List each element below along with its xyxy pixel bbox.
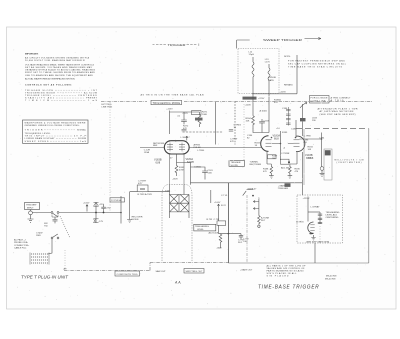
svg-text:NOTE:: NOTE:: [284, 56, 291, 58]
switch lever bottom: [243, 190, 254, 196]
conditions note box: [23, 120, 89, 143]
wire: top link: [170, 111, 200, 113]
svg-text:10K: 10K: [246, 121, 250, 123]
svg-text:WAVEFORMS & VOLTAGE READINGS: WAVEFORMS & VOLTAGE READINGS WERE: [25, 121, 87, 124]
svg-text:6U8: 6U8: [274, 138, 279, 141]
switch SW751: [51, 237, 53, 239]
svg-text:TRIGGERING LEVEL: TRIGGERING LEVEL: [25, 133, 52, 135]
connector J750: [29, 211, 33, 215]
diode box CR185: [268, 155, 277, 159]
label composite trig: [115, 271, 140, 276]
svg-text:TRIGGERING: TRIGGERING: [195, 226, 209, 228]
svg-text:LOWER BEAM DISPLAY: LOWER BEAM DISPLAY: [25, 137, 56, 140]
svg-text:SAW OUT: SAW OUT: [156, 270, 167, 273]
wire: after switch: [59, 212, 96, 214]
tube V193B envelope arc: [296, 136, 305, 151]
millivolts switch detail: [324, 149, 332, 180]
svg-text:+100V: +100V: [83, 203, 90, 205]
svg-text:CONN LINE: CONN LINE: [311, 101, 327, 103]
text: controls list: [25, 90, 98, 102]
svg-text:47K: 47K: [274, 102, 278, 104]
svg-text:TRIGGERING: TRIGGERING: [326, 212, 340, 214]
svg-text:A.TUNE: A.TUNE: [261, 216, 270, 219]
capacitor C752: [101, 204, 105, 212]
svg-text:FIRST SET TO THESE. SHOWN FROM: FIRST SET TO THESE. SHOWN FROM TOLERANCE…: [25, 71, 95, 74]
svg-text:SWEEP SPEED: SWEEP SPEED: [25, 141, 49, 143]
label swp out boxed: [184, 269, 204, 274]
sel capacitor dark: [325, 150, 331, 155]
note box right: [310, 96, 330, 104]
svg-text:RECTIFIER: RECTIFIER: [250, 164, 262, 166]
svg-text:USE TOLERANCES ARE SHOWN. THE: USE TOLERANCES ARE SHOWN. THE EQUIPMENT …: [25, 74, 93, 77]
svg-text:MX-40 KM: MX-40 KM: [325, 278, 336, 280]
svg-text:C182A: C182A: [194, 165, 201, 168]
svg-text:VOLTAGE READINGS MEAS. WERE TA: VOLTAGE READINGS MEAS. WERE TAKEN WITH C…: [25, 63, 95, 66]
svg-text:COMPOSITE TRIG: COMPOSITE TRIG: [117, 274, 138, 276]
svg-text:A TRIG: A TRIG: [331, 99, 344, 102]
attenuator column: [95, 203, 97, 223]
capacitor ladder in box: [318, 212, 322, 224]
svg-text:12µH: 12µH: [249, 54, 255, 56]
svg-text:(SEE SWP GATE GEN SWP): (SEE SWP GATE GEN SWP): [320, 113, 356, 116]
svg-text:+100V: +100V: [214, 202, 221, 204]
switch wiper circle: [320, 167, 324, 171]
junction box cathode: [281, 159, 290, 164]
svg-text:OSC: OSC: [243, 241, 248, 243]
svg-text:+225V: +225V: [280, 92, 287, 94]
cathode dark arc: [310, 232, 314, 235]
dot leaders for controls list: [51, 90, 86, 100]
resistor R751: [258, 216, 261, 225]
resistor R184: [252, 116, 255, 129]
svg-text:CONTROLS SET AS FOLLOWS:: CONTROLS SET AS FOLLOWS:: [25, 83, 72, 86]
ground symbol right: [320, 170, 325, 176]
ground input: [28, 215, 34, 223]
svg-text:FOR FASTEST PERMISSIBLE SWP AN: FOR FASTEST PERMISSIBLE SWP AND: [288, 60, 345, 63]
resistor R271: [198, 112, 201, 127]
svg-text:TYPE T PLUG-IN UNIT: TYPE T PLUG-IN UNIT: [21, 274, 68, 279]
arrow into chain 1: [253, 201, 259, 203]
dashed stub below ladder: [319, 226, 321, 242]
svg-text:AC FAST -J: AC FAST -J: [14, 239, 26, 242]
capacitor C272: [182, 130, 187, 133]
svg-text:A 100Ω: A 100Ω: [260, 110, 268, 113]
text: note block top right: [284, 56, 347, 69]
wire: into V183A grid: [253, 125, 269, 132]
svg-text:TRIGGER: TRIGGER: [25, 129, 43, 131]
wire: column x228: [227, 183, 229, 263]
svg-text:+12V: +12V: [99, 204, 105, 206]
svg-text:TIME-BASE TRIGGER: TIME-BASE TRIGGER: [258, 284, 320, 290]
trigger input box: [25, 203, 40, 210]
norm dark label: [195, 118, 203, 121]
inductor L12: [252, 57, 254, 94]
svg-text:INPUT: INPUT: [27, 207, 34, 209]
chassis boundary line: [101, 101, 372, 103]
transformer shield (dashed dome): [162, 185, 192, 262]
capacitor C750: [53, 217, 58, 223]
wire: between arcs: [272, 120, 296, 160]
level centering dashed box: [297, 195, 343, 243]
svg-text:C.TW: C.TW: [214, 219, 221, 221]
svg-text:R.TW: R.TW: [207, 219, 214, 221]
triggering level box: [194, 224, 216, 231]
dashed riser x244: [243, 104, 245, 160]
svg-text:R.74: R.74: [221, 205, 226, 207]
svg-text:+100V: +100V: [245, 105, 252, 107]
wire: grid bias column: [177, 154, 191, 185]
svg-text:A.A.: A.A.: [174, 280, 181, 284]
svg-text:AS CIRCUIT VOLTAGES SHOWN OBT: AS CIRCUIT VOLTAGES SHOWN OBTAINED WITH …: [25, 57, 90, 60]
svg-text:AP.: AP.: [64, 268, 68, 271]
svg-text:L.STRAY: L.STRAY: [311, 205, 320, 208]
wire: v193b cathode down: [302, 164, 304, 195]
arrow into chain 2: [253, 208, 259, 210]
svg-text:IMPORTANT:: IMPORTANT:: [25, 53, 39, 56]
svg-text:SIGNAL: SIGNAL: [77, 128, 87, 131]
svg-text:LEVEL ADJ: LEVEL ADJ: [326, 214, 337, 217]
svg-text:-150V: -150V: [216, 247, 222, 249]
svg-text:MILLIVOLTS / CM: MILLIVOLTS / CM: [335, 160, 364, 162]
svg-text:GATE 47: GATE 47: [248, 187, 258, 190]
svg-text:MX-40 KM: MX-40 KM: [326, 276, 337, 278]
wire: cathodes down: [267, 152, 303, 164]
svg-text:+GATE: +GATE: [278, 184, 286, 187]
junction dot R751: [252, 195, 254, 197]
svg-text:GATE: GATE: [268, 79, 274, 82]
svg-text:-12V: -12V: [99, 221, 104, 223]
svg-text:A.TRIG: A.TRIG: [296, 221, 304, 224]
diode D751: [94, 219, 99, 223]
wire: into pot box: [218, 212, 220, 221]
svg-text:AS TRIG IN ON THE TIME BASE: AS TRIG IN ON THE TIME BASE CAL PLAN: [141, 93, 204, 96]
wire: sweep trigger bracket: [237, 40, 250, 49]
svg-text:TRIGGER: TRIGGER: [26, 205, 36, 207]
svg-text:+225 V: +225 V: [303, 198, 311, 200]
dashed riser x236: [246, 195, 248, 263]
junction dot recovery: [120, 212, 122, 214]
svg-text:+GATE OUT: +GATE OUT: [240, 269, 253, 272]
diode D750: [94, 202, 99, 206]
wire: tube left pin: [140, 146, 164, 148]
wire: riser x215.5: [215, 102, 217, 145]
svg-text:LINE TRIG: LINE TRIG: [102, 107, 113, 109]
svg-text:R185: R185: [282, 132, 288, 134]
svg-text:PROBE ON A: PROBE ON A: [14, 241, 28, 244]
svg-text:(CENTIMETER): (CENTIMETER): [337, 162, 362, 164]
svg-text:1MΩ: 1MΩ: [36, 234, 41, 237]
wire: gate riser x303.5: [302, 104, 304, 136]
wire: cathodes down to transformer: [170, 154, 185, 185]
wire: riser to sweep trigger: [269, 55, 297, 94]
arrow to note: [300, 103, 307, 109]
svg-text:C.T 41: C.T 41: [221, 195, 228, 197]
svg-text:20,000 Ω/VOLT VOM. READINGS M: 20,000 Ω/VOLT VOM. READINGS MAY DIFFER I…: [25, 59, 86, 62]
svg-text:R183A: R183A: [274, 99, 281, 102]
svg-text:TIME BASE TRIG STAB CIRCUIT: TIME BASE TRIG STAB CIRCUITS: [288, 66, 343, 69]
wire: level chain x258.9: [258, 198, 260, 216]
svg-text:L.180 4.7: L.180 4.7: [181, 137, 191, 139]
svg-text:FOR DC MODE: FOR DC MODE: [311, 98, 329, 100]
svg-text:100K: 100K: [202, 114, 208, 116]
tube V183A envelope arc: [261, 136, 269, 152]
svg-text:TRIGGER: TRIGGER: [278, 188, 288, 190]
text: probe note: [14, 239, 30, 250]
svg-text:47K: 47K: [183, 128, 187, 130]
junction dot input2: [103, 212, 105, 214]
svg-text:SWP/TRIG OUT: SWP/TRIG OUT: [186, 271, 204, 273]
svg-text:LEVEL: LEVEL: [197, 229, 205, 231]
svg-text:ATTENUATOR PLATE 1 TWR: ATTENUATOR PLATE 1 TWR: [318, 108, 358, 111]
capacitor C181: [202, 168, 208, 175]
wire: trigger label dashes: [153, 44, 199, 46]
delay-line dashed box: [238, 49, 279, 94]
svg-text:L170: L170: [265, 62, 271, 64]
svg-text:C183: C183: [264, 121, 270, 123]
wire: grid line into V183A: [189, 147, 261, 149]
dashed stub x65: [64, 250, 66, 270]
svg-text:C752: C752: [106, 208, 112, 210]
dashed riser left: [109, 102, 111, 212]
svg-text:C186: C186: [282, 108, 288, 110]
resistor R717: [219, 234, 222, 249]
plugin boundary bus: [64, 263, 228, 271]
svg-text:470K: 470K: [179, 170, 185, 172]
swp gate dark box: [300, 118, 306, 121]
svg-text:CONNECTOR+: CONNECTOR+: [14, 245, 30, 247]
ground recovery: [127, 218, 132, 223]
svg-text:REF: REF: [153, 145, 158, 147]
svg-text:1mS: 1mS: [80, 141, 87, 143]
pulse boxed label: [110, 198, 125, 202]
svg-text:RETARD: RETARD: [284, 84, 293, 87]
coupling comp box: [192, 111, 202, 115]
ground in box: [311, 235, 315, 240]
wafer switch contacts: [31, 254, 48, 263]
switch SW750: [51, 212, 53, 214]
svg-text:S.RV0B: S.RV0B: [268, 77, 276, 79]
svg-text:(SEE SWP GATE GEN): (SEE SWP GATE GEN): [306, 240, 329, 243]
junction dot input: [95, 212, 97, 214]
resistor R197b to gnd: [288, 165, 293, 179]
wire: riser from +225V: [169, 111, 171, 135]
stability box label left: [229, 161, 245, 167]
resistor R182: [175, 163, 178, 177]
svg-text:-150V: -150V: [172, 179, 178, 181]
svg-text:SLOPE: SLOPE: [231, 165, 239, 167]
wire: drop to ground: [129, 192, 131, 218]
junction dot plate1: [169, 140, 171, 142]
stub x121: [120, 196, 122, 224]
svg-text:47K: 47K: [138, 183, 142, 185]
resistor R188b to gnd: [269, 165, 274, 179]
cap ladder x288: [286, 107, 291, 126]
terminal circle R751: [258, 225, 260, 227]
svg-text:ACTUAL WAVEFORMS AT INTERFACIN: ACTUAL WAVEFORMS AT INTERFACING SHOWN.: [25, 78, 75, 81]
scan specks: [11, 29, 395, 308]
svg-text:R.TW9: R.TW9: [138, 194, 146, 196]
wire: level link: [219, 233, 242, 235]
wire: link to ladder: [308, 211, 320, 213]
wire: bus under coils: [252, 93, 270, 95]
wire: pulse line y191.6: [130, 191, 170, 193]
svg-text:+225V: +225V: [166, 109, 173, 111]
svg-text:C.TRW: C.TRW: [304, 136, 312, 138]
svg-text:C.TW9R: C.TW9R: [281, 153, 290, 155]
tube V193B electrodes: [294, 140, 300, 147]
svg-text:DIODE: DIODE: [132, 219, 139, 221]
svg-text:ADJ 100K: ADJ 100K: [209, 231, 219, 234]
svg-text:CABLE P&C: CABLE P&C: [14, 247, 27, 250]
wire: plate bus y183: [191, 182, 303, 184]
inductor L13: [268, 64, 270, 97]
svg-text:SEL CAP COUPLING NETWORKS ON A: SEL CAP COUPLING NETWORKS ON ALL: [288, 63, 347, 66]
gate dark label: [285, 183, 291, 187]
saturab dark label: [243, 97, 257, 100]
wire: +225 riser: [307, 197, 309, 222]
svg-text:TRIGGER: TRIGGER: [231, 162, 241, 164]
wire: risers x253 x269: [253, 94, 269, 133]
interface box: [303, 129, 305, 185]
capacitor C273: [229, 130, 233, 131]
wire: v193b plate out: [300, 133, 322, 167]
svg-text:OBTAINED WITH A SCALE TO AVOID: OBTAINED WITH A SCALE TO AVOID LOADING. …: [25, 69, 96, 72]
svg-text:1 mS: 1 mS: [306, 158, 312, 160]
wire: pot down: [218, 225, 220, 233]
svg-text:A.TW9: A.TW9: [145, 193, 152, 196]
arrow +100V: [218, 204, 220, 212]
svg-text:+225V: +225V: [258, 98, 265, 100]
svg-text:AC SLOW: AC SLOW: [84, 91, 98, 94]
wire: c181 link: [191, 167, 206, 180]
junction dot plate: [321, 138, 323, 140]
capacitor C.TW: [239, 234, 243, 240]
svg-text:TRIGGERING MODE: TRIGGERING MODE: [153, 102, 181, 105]
svg-text:C270: C270: [183, 113, 189, 115]
capacitor C270: [181, 112, 187, 124]
svg-text:S/N PLACED: S/N PLACED: [267, 275, 289, 278]
junction dot v183a: [271, 137, 273, 139]
wire: to recovery: [96, 212, 121, 214]
svg-text:1M: 1M: [272, 158, 275, 160]
transformer T180 windings: [170, 195, 190, 212]
RC box C180/R180: [137, 185, 148, 192]
wire: sweep trigger arrow: [305, 37, 322, 39]
svg-text:1V PULSE: 1V PULSE: [111, 200, 122, 202]
svg-text:CENTERING: CENTERING: [326, 217, 339, 219]
wire: cathode links: [267, 163, 297, 166]
wire: dashed riser x235: [234, 102, 236, 145]
triggering mode box label: [151, 100, 182, 104]
tube V183B/V184A envelope: [164, 141, 189, 154]
junction dot v193b: [295, 137, 297, 139]
capacitor C183: [259, 119, 265, 125]
svg-text:AT SWP/MAG NETWORK: AT SWP/MAG NETWORK: [320, 110, 355, 113]
junction dot level: [228, 233, 230, 235]
svg-text:EXT TRIG: EXT TRIG: [102, 104, 112, 106]
tube V6 arc: [308, 222, 314, 233]
wire: box stub: [314, 243, 316, 263]
arrow +100V at input: [86, 205, 88, 212]
svg-text:133A: 133A: [144, 151, 150, 154]
tube internal electrodes: [167, 144, 185, 149]
wire: h dashed mid: [183, 131, 223, 133]
junction dot grid: [280, 143, 282, 145]
svg-text:L.TRIG: L.TRIG: [197, 150, 204, 152]
svg-text:TRIGGER: TRIGGER: [168, 43, 186, 47]
pot box R716: [217, 221, 226, 225]
svg-text:SET AS SHOWN. VOLTAGES AND W: SET AS SHOWN. VOLTAGES AND WAVEFORMS MAY: [25, 66, 93, 69]
svg-text:47K: 47K: [230, 141, 234, 143]
svg-text:OBTAINED UNDER FOLLOWING CONDI: OBTAINED UNDER FOLLOWING CONDITIONS:: [25, 124, 80, 127]
wire: input run: [32, 212, 51, 214]
svg-text:SWEEP TRIGGER: SWEEP TRIGGER: [263, 38, 302, 42]
wire: winding leads: [170, 185, 190, 218]
tube V183A electrodes: [266, 140, 272, 147]
svg-text:6U8: 6U8: [156, 161, 161, 164]
junction dot plate2: [175, 140, 177, 142]
wire: riser x210: [210, 190, 212, 203]
